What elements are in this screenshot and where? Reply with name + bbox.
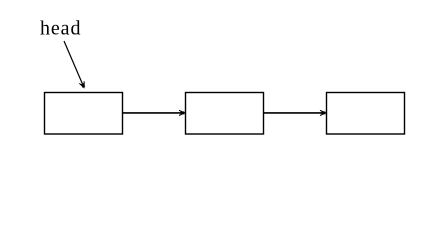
svg-text:head: head [40,18,81,40]
